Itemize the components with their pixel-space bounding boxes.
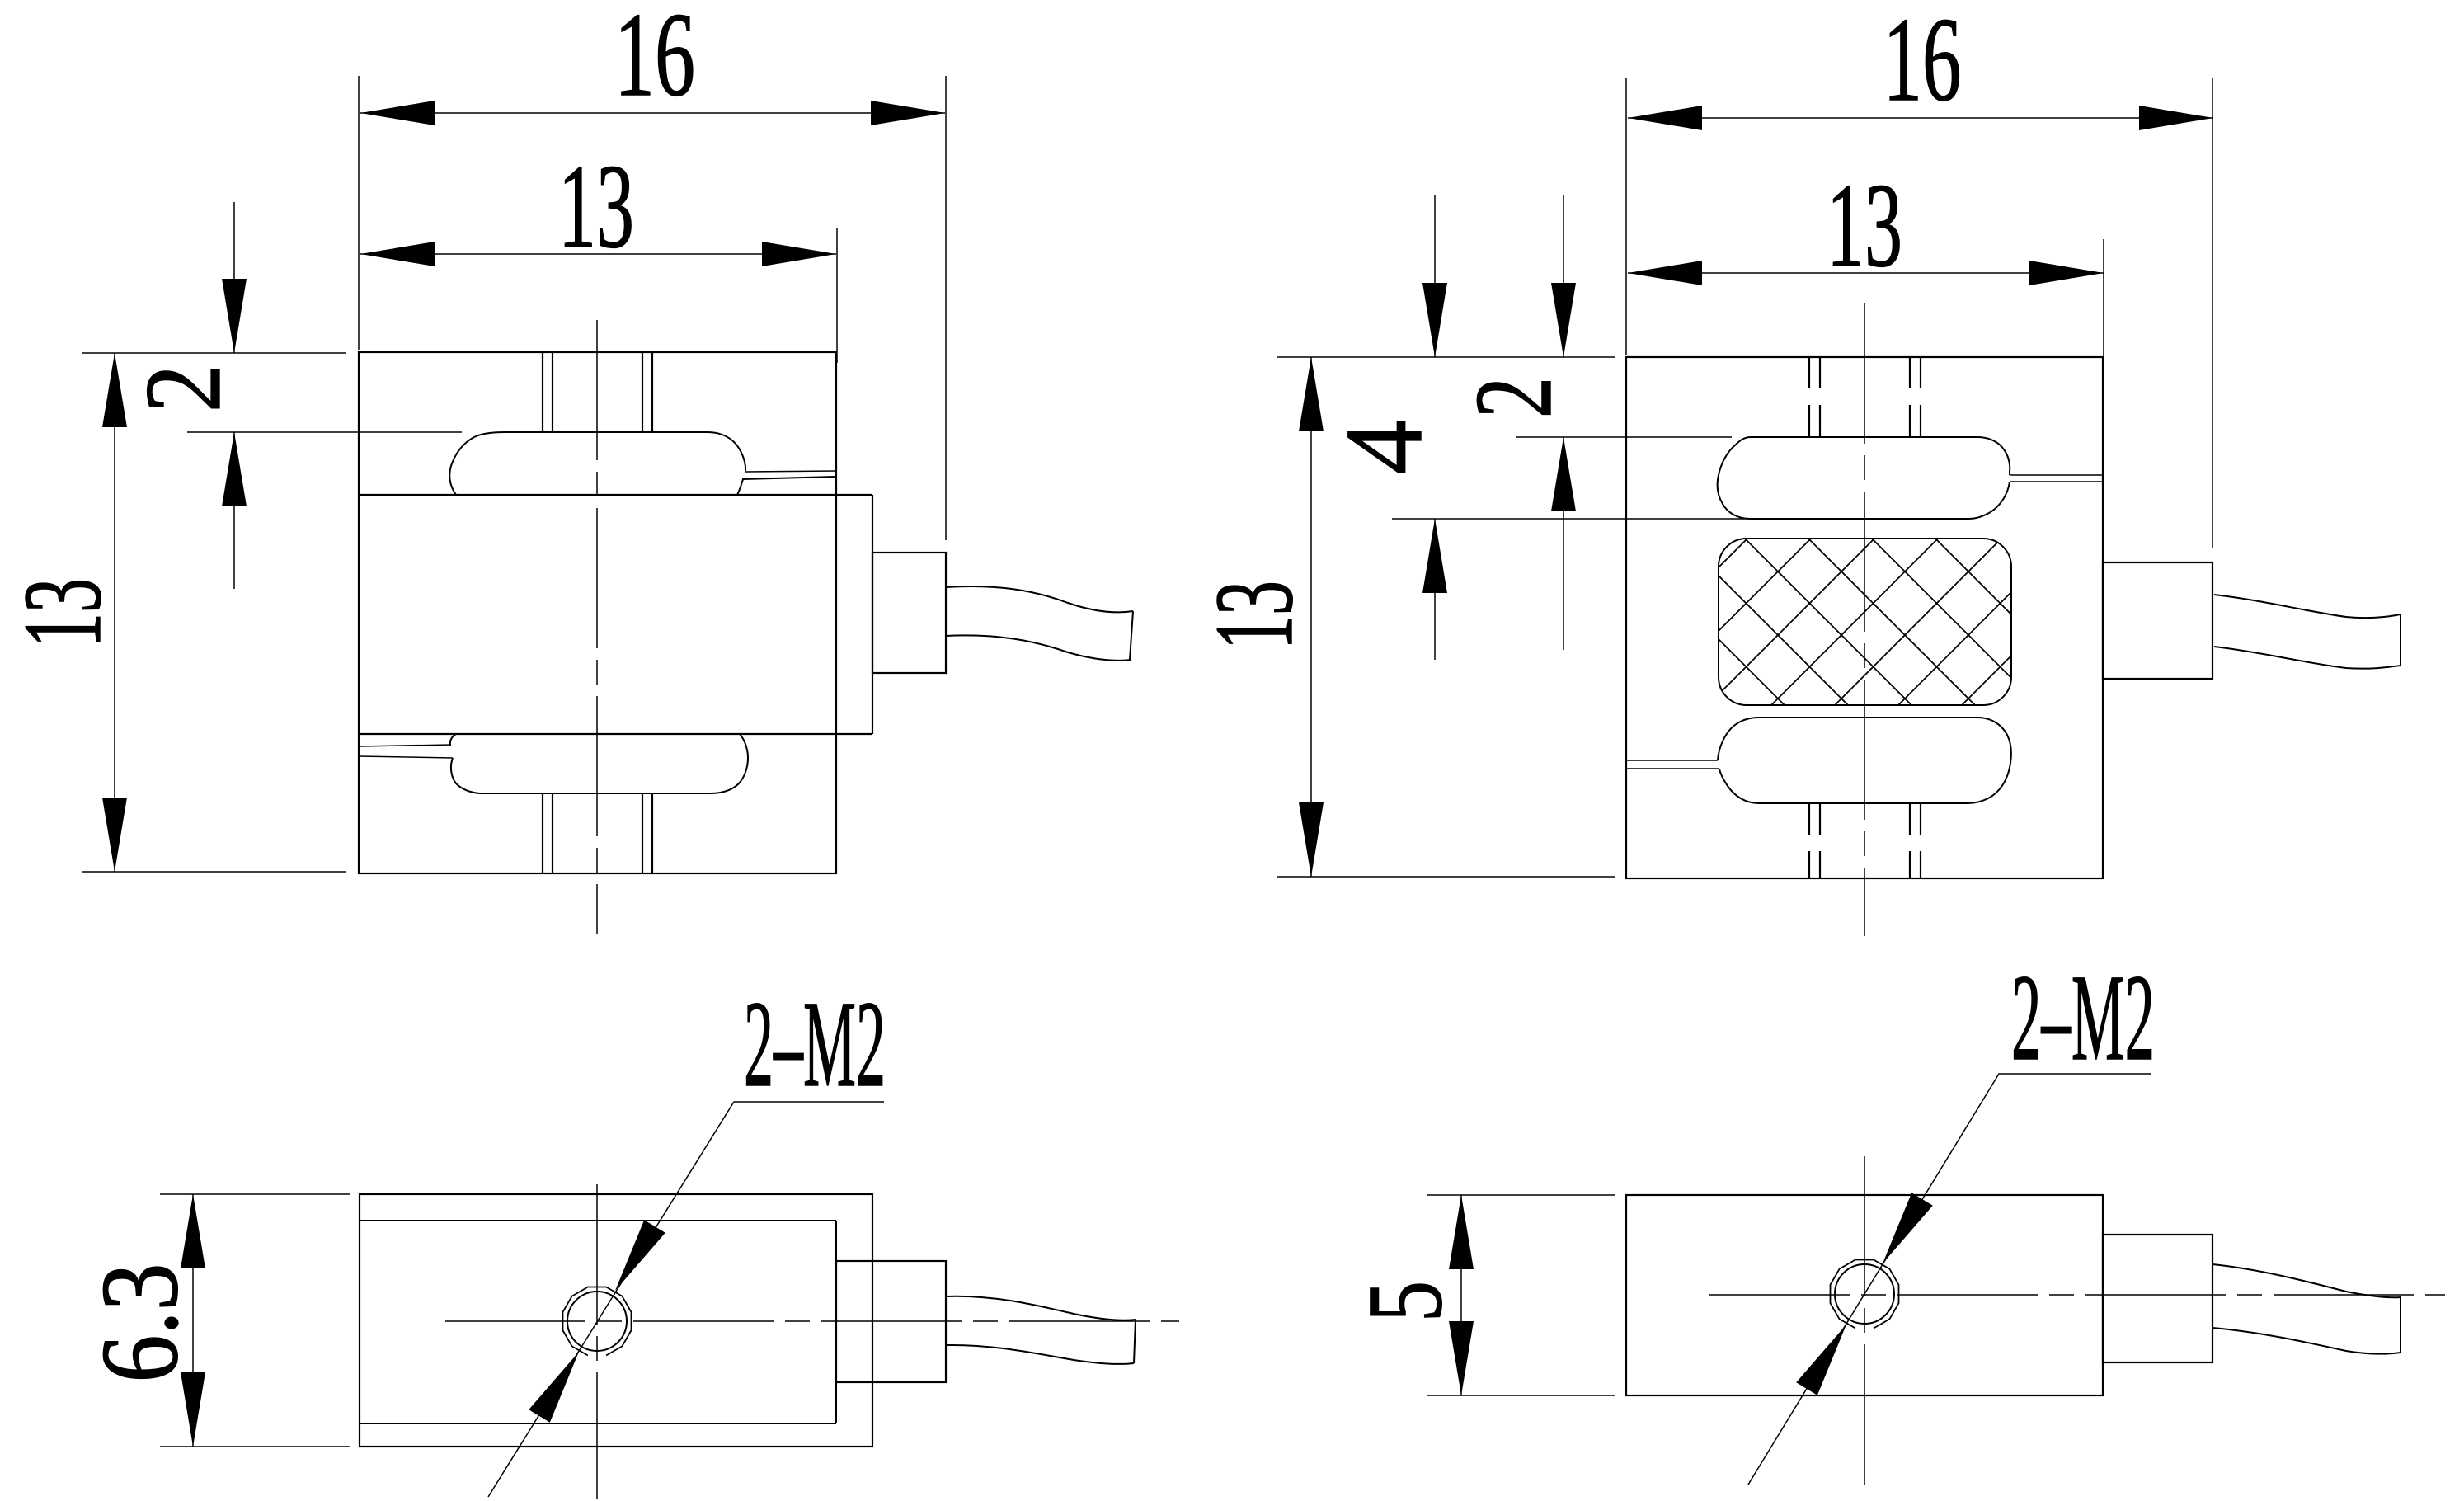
dim 13 vertical arrow top bbox=[102, 353, 127, 427]
dim 13 vertical dimension line right view bbox=[1310, 357, 1312, 877]
lower slit from left edge top bbox=[1626, 760, 1718, 761]
svg-text:5: 5 bbox=[1346, 1281, 1465, 1322]
cable upper line left view bbox=[946, 586, 1133, 612]
dim 16 arrow left bbox=[360, 101, 435, 125]
dim 5 arrow bottom bbox=[1449, 1321, 1474, 1395]
upper cavity right view bbox=[1718, 437, 2010, 519]
cable gland top view left bbox=[836, 1261, 946, 1382]
body top face edge upper bbox=[360, 1220, 836, 1221]
cable lower line right view bbox=[2214, 647, 2401, 669]
dim 13 vertical arrow bottom right view bbox=[1299, 802, 1324, 877]
svg-text:13: 13 bbox=[558, 139, 634, 273]
svg-text:2–M2: 2–M2 bbox=[2011, 949, 2155, 1086]
horizontal centerline top view left bbox=[445, 1320, 1179, 1322]
leader line 2-M2 right bbox=[1748, 1074, 2151, 1485]
thread circle top view right bbox=[1831, 1260, 1899, 1329]
dim 4 dimension line upper bbox=[1434, 195, 1436, 357]
cable gland left view bbox=[872, 553, 946, 673]
tapped hole M2 bottom thread line L bbox=[542, 793, 543, 873]
dim 16 right extension line bbox=[945, 76, 947, 540]
lower slit from left edge top bbox=[359, 745, 451, 746]
dim 6.3 bottom extension bbox=[160, 1446, 350, 1447]
cable upper line right view bbox=[2214, 595, 2401, 618]
dim 13 vertical arrow top right view bbox=[1299, 357, 1324, 431]
cable upper line top view right bbox=[2212, 1264, 2401, 1297]
dim 13 right extension line bbox=[836, 228, 838, 363]
hidden hole top drill R right view bbox=[1909, 357, 1911, 437]
tapped hole M2 bottom thread line R bbox=[651, 793, 653, 873]
dim 2 dimension line lower bbox=[233, 432, 235, 589]
top view outline left bbox=[360, 1194, 872, 1447]
leader arrow upper right view bbox=[1883, 1193, 1933, 1263]
middle block right edge bbox=[872, 495, 873, 734]
cable end cap left view bbox=[1130, 611, 1133, 660]
tapped hole M2 top drill line R bbox=[642, 352, 643, 432]
dim 16 left extension right view bbox=[1625, 78, 1627, 355]
thread circle top view left bbox=[563, 1287, 632, 1356]
hidden hole top thread L right view bbox=[1808, 357, 1810, 437]
upper slot right lip bbox=[737, 477, 835, 495]
dim 13 arrow right right view bbox=[2029, 261, 2104, 285]
dim 16 arrow left right view bbox=[1628, 106, 1702, 130]
lower slit from left edge bottom bbox=[359, 756, 453, 758]
svg-text:4: 4 bbox=[1323, 420, 1445, 474]
tapped hole M2 top drill line L bbox=[552, 352, 553, 432]
svg-text:2: 2 bbox=[122, 365, 243, 412]
body top face right edge bbox=[835, 1221, 837, 1423]
dim 2 dimension line lower right view bbox=[1563, 437, 1564, 650]
dim 5 dimension line bbox=[1460, 1195, 1462, 1395]
hidden hole bottom drill L right view bbox=[1819, 803, 1821, 878]
svg-text:2: 2 bbox=[1452, 377, 1574, 418]
lower cavity right view bbox=[1718, 718, 2011, 803]
svg-text:16: 16 bbox=[614, 0, 695, 121]
dim 2 arrow up right view bbox=[1551, 437, 1576, 511]
leader line 2-M2 left bbox=[488, 1102, 884, 1497]
upper slit to right edge top bbox=[2010, 474, 2103, 476]
dim 16 dimension line right view bbox=[1628, 117, 2213, 119]
tapped hole M2 top thread line R bbox=[651, 352, 653, 432]
cable gland top view right bbox=[2103, 1235, 2212, 1362]
tapped hole circle top view left bbox=[567, 1292, 627, 1351]
dim 13 vertical bottom extension right view bbox=[1277, 876, 1615, 878]
dim 2 arrow down right view bbox=[1551, 283, 1576, 357]
dim 13 vertical arrow bottom bbox=[102, 798, 127, 872]
dim 2 dimension line upper bbox=[233, 202, 235, 353]
dim 13 right extension right view bbox=[2103, 239, 2104, 367]
dim 2 arrow down bbox=[222, 279, 247, 353]
dim 4 arrow up bbox=[1422, 519, 1447, 593]
vertical centerline left view bbox=[596, 320, 598, 934]
hidden hole top thread R right view bbox=[1920, 357, 1921, 437]
dim 13 dimension line right view bbox=[1628, 272, 2104, 274]
cable gland right view bbox=[2103, 562, 2212, 679]
dim 2 extension line right view bbox=[1516, 436, 1732, 438]
hidden hole bottom thread R right view bbox=[1920, 803, 1921, 878]
dim 16 right extension right view bbox=[2212, 78, 2213, 548]
vertical centerline top view right bbox=[1864, 1156, 1865, 1496]
vertical centerline top view left bbox=[596, 1184, 598, 1499]
svg-text:16: 16 bbox=[1883, 0, 1962, 126]
lower slit from left edge bottom bbox=[1626, 768, 1719, 769]
dim 4 extension line bbox=[1392, 518, 1751, 520]
dim 4 arrow down bbox=[1422, 283, 1447, 357]
dim 16 arrow right right view bbox=[2139, 106, 2213, 130]
dim 13 vertical dimension line bbox=[114, 353, 115, 872]
leader arrow upper left view bbox=[615, 1220, 665, 1291]
cable upper line top view left bbox=[946, 1296, 1136, 1320]
dim 4 dimension line lower bbox=[1434, 519, 1436, 660]
upper slit to right edge bottom bbox=[2010, 481, 2103, 482]
leader arrow lower right view bbox=[1796, 1325, 1846, 1395]
strain gauge crosshatch block bbox=[1719, 539, 2011, 705]
dim 2 arrow up bbox=[222, 432, 247, 506]
lower cavity (S-slot) left view bbox=[450, 734, 748, 793]
dim 16 left extension line bbox=[358, 76, 360, 350]
middle block top edge bbox=[359, 494, 872, 496]
dim 2 extension line bbox=[187, 431, 462, 433]
svg-text:13: 13 bbox=[1827, 158, 1902, 292]
dim 13 arrow left right view bbox=[1628, 261, 1702, 285]
upper slit to right edge bbox=[745, 471, 836, 472]
upper cavity (S-slot) left view bbox=[449, 432, 745, 495]
dim 13 vertical top extension bbox=[82, 352, 346, 354]
top view outline right bbox=[1626, 1195, 2103, 1395]
dim 2 dimension line upper right view bbox=[1563, 195, 1564, 357]
body outline (front view right) bbox=[1626, 357, 2103, 878]
svg-text:13: 13 bbox=[1, 578, 125, 647]
tapped hole M2 bottom drill line R bbox=[642, 793, 643, 873]
dim 13 dimension line bbox=[360, 253, 836, 255]
leader arrow lower left view bbox=[529, 1352, 579, 1423]
cable end cap top view left bbox=[1134, 1320, 1136, 1363]
dim 13 vertical top extension right view bbox=[1277, 356, 1615, 358]
hidden hole bottom drill R right view bbox=[1909, 803, 1911, 878]
dim 13 vertical bottom extension bbox=[82, 871, 346, 873]
dim 13 arrow right bbox=[762, 242, 836, 266]
cable lower line top view right bbox=[2212, 1328, 2401, 1354]
dim 5 bottom extension bbox=[1427, 1395, 1615, 1396]
dim 16 dimension line bbox=[360, 112, 945, 114]
dim 6.3 dimension line bbox=[192, 1194, 194, 1447]
dim 13 arrow left bbox=[360, 242, 435, 266]
dim 6.3 arrow top bbox=[181, 1194, 205, 1268]
middle block bottom edge bbox=[359, 733, 872, 735]
cable end cap top view right bbox=[2400, 1297, 2401, 1353]
tapped hole M2 bottom drill line L bbox=[552, 793, 553, 873]
cable end cap right view bbox=[2400, 614, 2401, 666]
body top face edge lower bbox=[360, 1423, 836, 1424]
tapped hole circle top view right bbox=[1835, 1264, 1894, 1324]
svg-text:13: 13 bbox=[1192, 581, 1316, 650]
dim 5 top extension bbox=[1427, 1194, 1615, 1196]
dim 16 arrow right bbox=[871, 101, 945, 125]
horizontal centerline top view right bbox=[1709, 1294, 2445, 1296]
svg-text:6.3: 6.3 bbox=[78, 1263, 200, 1383]
cable lower line left view bbox=[946, 635, 1131, 660]
vertical centerline right view bbox=[1864, 303, 1865, 936]
dim 6.3 arrow bottom bbox=[181, 1372, 205, 1447]
svg-text:2–M2: 2–M2 bbox=[744, 976, 886, 1113]
dim 6.3 top extension bbox=[160, 1193, 350, 1195]
dim 5 arrow top bbox=[1449, 1195, 1474, 1269]
tapped hole M2 top thread line L bbox=[542, 352, 543, 432]
cable lower line top view left bbox=[946, 1345, 1134, 1364]
body outline (front view left) bbox=[359, 352, 836, 873]
hidden hole bottom thread L right view bbox=[1808, 803, 1810, 878]
hidden hole top drill L right view bbox=[1819, 357, 1821, 437]
